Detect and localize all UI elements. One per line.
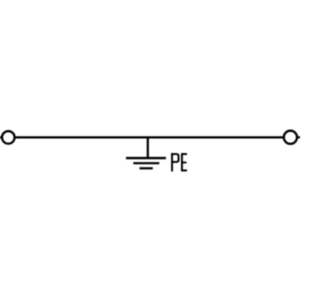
ground bar 3 [140, 167, 153, 169]
terminal circle left [2, 131, 15, 144]
label PE letter E [181, 153, 183, 171]
ground bar 1 [126, 157, 166, 159]
wire main [15, 136, 283, 138]
terminal circle right [284, 131, 297, 144]
wire left stub [0, 136, 3, 138]
label PE letter P [171, 153, 173, 171]
wire right stub [298, 136, 300, 138]
ground bar 2 [133, 162, 159, 164]
wire ground lead [147, 137, 149, 158]
